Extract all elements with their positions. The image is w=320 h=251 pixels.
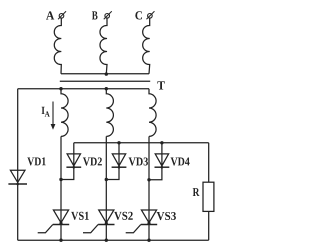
current arrow IA	[52, 102, 54, 126]
junction dot VD2 phase A	[59, 178, 62, 181]
transformer core T	[60, 80, 150, 82]
junction dot bottom A	[59, 239, 62, 242]
secondary winding B	[106, 89, 113, 137]
label R	[193, 188, 200, 196]
anode rail wire	[74, 142, 209, 144]
diode VD2	[67, 154, 80, 166]
secondary winding A	[61, 89, 68, 137]
right frame wire lower	[208, 211, 210, 240]
secondary bus wire	[18, 88, 149, 90]
label VD2	[83, 157, 102, 165]
VD3 branch wire	[106, 143, 119, 180]
label VS2	[114, 212, 133, 220]
bottom bus wire	[18, 239, 209, 241]
terminal B	[105, 14, 110, 19]
diode VD3	[112, 154, 125, 166]
label C	[135, 11, 142, 19]
label T	[157, 81, 164, 89]
junction dot secondary B	[105, 87, 108, 90]
label VS3	[157, 212, 176, 220]
terminal A	[59, 14, 64, 19]
label VD4	[171, 158, 190, 166]
label A	[46, 11, 54, 19]
diode VD4	[155, 154, 168, 166]
junction dot primary B	[105, 72, 108, 75]
thyristor VS3	[141, 210, 156, 223]
primary winding C	[143, 18, 150, 74]
junction dot VD3 phase B	[105, 178, 108, 181]
phase wire B lower	[105, 136, 107, 240]
junction dot bottom C	[147, 239, 150, 242]
label B	[92, 11, 98, 19]
VD4 branch wire	[149, 143, 162, 180]
primary bus wire	[61, 73, 149, 75]
label VD3	[129, 157, 148, 165]
secondary winding C	[149, 89, 156, 137]
junction dot bottom B	[105, 239, 108, 242]
diode VD1	[10, 170, 25, 182]
thyristor VS2	[99, 210, 114, 223]
right frame wire upper	[208, 143, 210, 182]
left frame wire	[17, 89, 19, 241]
label VD1	[27, 157, 45, 165]
thyristor VS1	[53, 210, 68, 223]
junction dot rail VD4	[160, 141, 163, 144]
VD2 branch wire	[61, 143, 74, 180]
junction dot secondary A	[59, 87, 62, 90]
phase wire A lower	[60, 136, 62, 240]
phase wire C lower	[148, 136, 150, 240]
label VS1	[71, 212, 89, 220]
label IA	[42, 107, 45, 114]
primary winding A	[54, 18, 61, 74]
junction dot VD4 phase C	[147, 178, 150, 181]
junction dot rail VD3	[117, 141, 120, 144]
primary winding B	[100, 18, 107, 74]
terminal C	[148, 14, 153, 19]
resistor R	[203, 182, 214, 211]
